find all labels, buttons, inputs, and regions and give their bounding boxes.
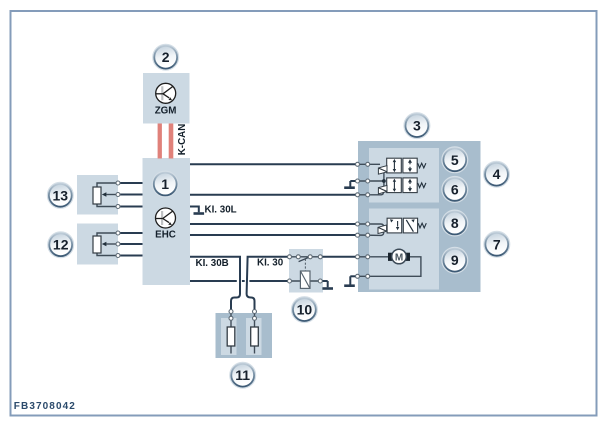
svg-text:K-CAN: K-CAN bbox=[177, 124, 188, 156]
svg-text:FB3708042: FB3708042 bbox=[14, 401, 76, 412]
svg-text:13: 13 bbox=[53, 187, 69, 203]
svg-text:12: 12 bbox=[53, 237, 69, 253]
svg-text:10: 10 bbox=[297, 302, 313, 318]
svg-text:KI. 30L: KI. 30L bbox=[205, 205, 237, 216]
svg-text:8: 8 bbox=[451, 215, 459, 231]
svg-text:9: 9 bbox=[451, 252, 459, 268]
svg-text:KI. 30: KI. 30 bbox=[257, 258, 284, 269]
svg-text:M: M bbox=[395, 252, 403, 263]
svg-text:7: 7 bbox=[493, 236, 501, 252]
svg-text:EHC: EHC bbox=[155, 230, 176, 241]
svg-text:5: 5 bbox=[451, 152, 459, 168]
svg-text:4: 4 bbox=[493, 166, 501, 182]
svg-text:KI. 30B: KI. 30B bbox=[196, 258, 229, 269]
svg-text:1: 1 bbox=[161, 176, 169, 192]
svg-text:ZGM: ZGM bbox=[155, 105, 177, 116]
svg-text:11: 11 bbox=[235, 367, 250, 383]
svg-text:2: 2 bbox=[162, 49, 170, 65]
svg-text:6: 6 bbox=[451, 181, 459, 197]
svg-text:3: 3 bbox=[413, 118, 421, 134]
